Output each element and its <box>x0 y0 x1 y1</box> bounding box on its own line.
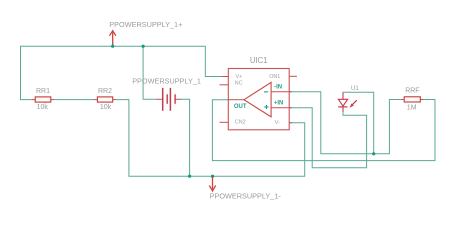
junction dot on top rail at supply arrow <box>111 45 114 48</box>
battery PPOWERSUPPLY_1 <box>132 76 201 111</box>
pin stub V+ <box>222 76 229 78</box>
svg-text:10k: 10k <box>37 104 49 111</box>
svg-text:U1: U1 <box>351 86 359 92</box>
LED light arrow <box>352 100 357 105</box>
wire +IN to LED cathode <box>289 108 366 168</box>
pin stub NC <box>220 84 229 86</box>
svg-text:RR1: RR1 <box>36 88 50 95</box>
junction dot on top rail at battery branch <box>142 45 145 48</box>
svg-text:PPOWERSUPPLY_1+: PPOWERSUPPLY_1+ <box>109 20 182 29</box>
svg-text:NC: NC <box>235 80 243 86</box>
pin stub CN2 <box>220 121 229 123</box>
wire battery plus branch <box>143 46 157 99</box>
svg-text:+IN: +IN <box>274 101 284 107</box>
svg-text:V-: V- <box>275 120 280 126</box>
pin nub V- <box>289 122 292 124</box>
svg-text:-IN: -IN <box>274 85 282 91</box>
wire -IN to RRF left <box>289 92 401 154</box>
LED U1 <box>338 86 359 112</box>
op-amp triangle <box>244 82 271 117</box>
internal +IN lead <box>271 107 292 109</box>
junction dot on bottom rail at supply minus arrow <box>211 175 214 178</box>
svg-text:UIC1: UIC1 <box>250 56 268 65</box>
pin stub ON1 <box>289 75 297 77</box>
op-amp UIC1 <box>220 56 298 130</box>
wire OUT to RRF right <box>212 100 435 161</box>
wire RR2 right down to bottom rail and up to V- <box>115 100 305 177</box>
svg-text:V+: V+ <box>236 74 243 80</box>
svg-text:1M: 1M <box>407 104 417 111</box>
plus sign <box>264 105 268 109</box>
resistor RR2 <box>94 88 115 111</box>
svg-text:OUT: OUT <box>234 104 247 110</box>
resistor RR1 <box>32 88 54 111</box>
wire LED anode branch <box>343 92 374 154</box>
power symbol PPOWERSUPPLY_1+ arrow <box>110 31 116 47</box>
svg-text:RRF: RRF <box>405 88 419 95</box>
wire V+ top rail to op-amp V+ <box>21 46 223 76</box>
junction dot LED anode on -IN net <box>372 152 375 155</box>
svg-text:PPOWERSUPPLY_1-: PPOWERSUPPLY_1- <box>210 191 282 200</box>
svg-text:RR2: RR2 <box>98 88 112 95</box>
resistor RRF <box>401 88 424 112</box>
wire RR1 to RR2 <box>54 99 95 101</box>
wire battery minus to bottom rail <box>181 99 190 176</box>
svg-text:10k: 10k <box>100 104 112 111</box>
internal -IN lead <box>271 91 292 93</box>
power symbol PPOWERSUPPLY_1- arrow <box>209 176 215 191</box>
internal OUT lead <box>228 99 244 101</box>
svg-text:PPOWERSUPPLY_1: PPOWERSUPPLY_1 <box>132 76 201 85</box>
wire left drop to RR1 <box>21 46 33 100</box>
junction dot on bottom rail at battery minus <box>188 175 191 178</box>
svg-text:ON1: ON1 <box>269 74 280 80</box>
minus sign <box>264 91 268 92</box>
svg-text:CN2: CN2 <box>235 119 246 125</box>
